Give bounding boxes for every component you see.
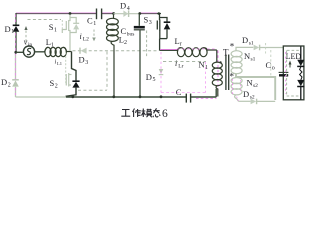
label D4 <box>120 1 130 13</box>
svg-text:D: D <box>146 72 152 82</box>
wire bottom rail <box>66 89 216 97</box>
transistor S2 (inactive MOSFET body) <box>66 73 71 87</box>
capacitor C resonant <box>186 94 190 103</box>
svg-text:1: 1 <box>51 42 54 48</box>
svg-text:N: N <box>247 78 253 88</box>
wire left rail lower (inactive, light) <box>15 53 17 98</box>
dashed path through D3 <box>73 50 160 52</box>
diode D1 <box>13 25 20 32</box>
svg-text:s2: s2 <box>253 83 258 89</box>
node Cbus bottom <box>139 95 142 98</box>
node S1 drain on top rail <box>69 12 72 15</box>
LED string bottom lead <box>300 87 302 100</box>
svg-text:*: * <box>230 42 235 52</box>
S3 body diode (conducting) <box>164 22 171 29</box>
label D3 <box>79 55 89 67</box>
LED diode 1 <box>297 60 304 67</box>
svg-text:Lr: Lr <box>178 63 183 69</box>
node resonant loop bottom <box>160 95 163 98</box>
label Ds2 <box>243 89 255 101</box>
current arrow inside LED box <box>289 61 292 68</box>
svg-text:D: D <box>243 89 249 99</box>
magenta speckle on Ns2 <box>232 79 234 94</box>
diode Ds1 (inactive) <box>254 45 284 51</box>
primary polarity dot <box>220 61 222 63</box>
inductor L1 <box>45 47 72 56</box>
magenta dashed loop left vertical <box>160 52 162 93</box>
svg-text:C: C <box>87 16 93 26</box>
dashed vertical mid-left loop <box>106 52 108 90</box>
label Lr <box>175 36 182 47</box>
S1 body diode triangle (inactive) <box>73 24 79 29</box>
magenta dashed loop bottom <box>161 92 206 94</box>
svg-text:3: 3 <box>85 60 88 66</box>
diode Ds2 (inactive) <box>251 99 276 105</box>
diode D5 (inactive, on dashed branch) <box>159 69 164 75</box>
svg-text:2: 2 <box>8 82 11 88</box>
LED string zigzag <box>300 67 302 80</box>
wire bottom rail left (inactive) <box>16 96 67 98</box>
svg-text:T: T <box>223 48 229 58</box>
svg-text:D: D <box>1 77 7 87</box>
label Cbus <box>121 26 135 37</box>
wire transformer primary drop <box>216 50 218 62</box>
svg-text:D: D <box>120 1 126 11</box>
wire vin leads <box>16 51 45 54</box>
wire left rail upper <box>15 13 17 53</box>
svg-text:in: in <box>28 42 33 48</box>
dashed inner loop of LED box <box>287 50 301 96</box>
LED box outline <box>283 46 304 100</box>
winding Ns2 (inactive) <box>231 78 242 102</box>
wire secondary bottom lead <box>239 100 251 102</box>
svg-text:1: 1 <box>54 27 57 33</box>
svg-text:r: r <box>180 41 182 47</box>
label D1 <box>5 24 15 35</box>
svg-text:5: 5 <box>153 77 156 83</box>
transistor S1 (inactive MOSFET) <box>62 15 79 51</box>
label N1 <box>199 60 209 72</box>
magenta dashed overlay resonant top <box>160 48 177 50</box>
dashed marker right of Ds1 <box>265 43 267 54</box>
dashed current path iLr <box>163 61 206 63</box>
label D5 <box>146 72 156 83</box>
node L2 bottom <box>112 95 115 98</box>
LED diode 2 <box>297 80 304 87</box>
hanzi 模 <box>142 109 153 118</box>
svg-text:C: C <box>121 26 127 36</box>
wire top rail <box>16 13 161 15</box>
label Co <box>266 60 275 72</box>
label iL2 <box>80 32 90 42</box>
label S2 <box>50 78 58 89</box>
hanzi 工 <box>121 110 130 117</box>
svg-text:6: 6 <box>162 108 168 120</box>
label iLr <box>175 59 184 69</box>
svg-text:s1: s1 <box>249 41 254 47</box>
svg-text:1: 1 <box>11 29 14 35</box>
wire magenta dashed overlay on left rail <box>14 15 16 96</box>
label D2 <box>1 77 11 88</box>
node at vin left junction <box>14 51 17 54</box>
node Cbus top junction <box>138 12 141 15</box>
wire D4 segment (inactive) <box>114 13 141 15</box>
svg-text:N: N <box>199 60 205 70</box>
S2 gate dashed lead <box>65 53 67 86</box>
label vin <box>24 38 33 48</box>
svg-text:1: 1 <box>205 65 208 71</box>
transformer T primary winding <box>212 62 222 96</box>
label S3 <box>144 15 152 27</box>
svg-text:D: D <box>242 35 248 45</box>
dashed loop top-left horizontal <box>28 19 62 21</box>
svg-text:C: C <box>266 60 272 70</box>
wire center tap <box>236 74 275 100</box>
svg-text:1: 1 <box>93 21 96 27</box>
magenta dashed loop right vertical <box>205 62 207 93</box>
capacitor Cbus <box>134 14 145 97</box>
svg-text:D: D <box>79 55 85 65</box>
magenta dashed fringe bottom right <box>196 97 217 99</box>
inductor L2 (vertical) <box>107 14 119 97</box>
magenta overlay on inner dash <box>284 52 286 94</box>
dashed horizontal above bottom rail (S2 loop) <box>78 89 107 91</box>
svg-text:L1: L1 <box>57 61 62 66</box>
svg-text:*: * <box>230 71 235 81</box>
label Ns2 <box>247 78 259 90</box>
caption 工作模态6 (drawn strokes) <box>121 108 160 117</box>
hanzi 态 <box>153 108 160 117</box>
node L2 top junction <box>112 12 115 15</box>
svg-text:L2: L2 <box>83 36 89 42</box>
wire magenta dashed overlay on top rail <box>16 12 157 14</box>
node L1-S1-S2 junction <box>72 52 77 82</box>
svg-text:C: C <box>176 87 182 97</box>
transistor S3 (active MOSFET) <box>157 14 167 51</box>
diode D3 (inactive) <box>80 48 87 54</box>
dashed current arrow near D1 <box>24 26 27 45</box>
source vin <box>23 46 34 57</box>
wire half-bridge midpoint to Lr <box>160 49 177 51</box>
svg-text:bus: bus <box>127 31 135 37</box>
LED string top lead <box>300 47 302 60</box>
hanzi 作 <box>133 109 141 118</box>
label S1 <box>49 22 57 33</box>
diode S2 body (conducting, black) <box>66 81 79 97</box>
svg-text:D: D <box>5 24 11 34</box>
S3 gate dashed lead <box>146 31 148 58</box>
label Ns1 <box>244 51 256 63</box>
node S2 source on bottom rail <box>71 95 74 98</box>
S1 gate dashed lead <box>61 20 63 32</box>
dashed loop marker left of Co <box>270 50 272 76</box>
node S3 drain <box>158 12 161 15</box>
svg-text:s2: s2 <box>250 95 255 101</box>
magenta overlay on primary drop <box>217 51 219 97</box>
dashed arrow beside iL2 <box>93 30 95 38</box>
diode D4 (inactive) <box>123 10 128 17</box>
svg-text:3: 3 <box>149 20 152 26</box>
svg-text:s1: s1 <box>251 56 256 62</box>
transformer core <box>226 55 229 91</box>
svg-text:2: 2 <box>124 40 127 46</box>
svg-text:2: 2 <box>55 83 58 89</box>
svg-text:N: N <box>244 51 250 61</box>
label C1 <box>87 16 96 28</box>
svg-text:i: i <box>175 59 177 68</box>
svg-text:4: 4 <box>127 6 130 12</box>
diode D2 (inactive) <box>12 80 19 87</box>
winding Ns1 (inactive) <box>231 47 253 73</box>
capacitor Co plates <box>279 72 289 75</box>
inductor Lr <box>177 48 217 57</box>
capacitor C1 <box>97 9 102 20</box>
label L1 <box>46 37 54 48</box>
svg-text:o: o <box>272 66 275 72</box>
label Ds1 <box>242 35 254 47</box>
label L2 <box>119 35 127 47</box>
label iL1 <box>55 59 63 66</box>
svg-text:i: i <box>80 32 82 41</box>
